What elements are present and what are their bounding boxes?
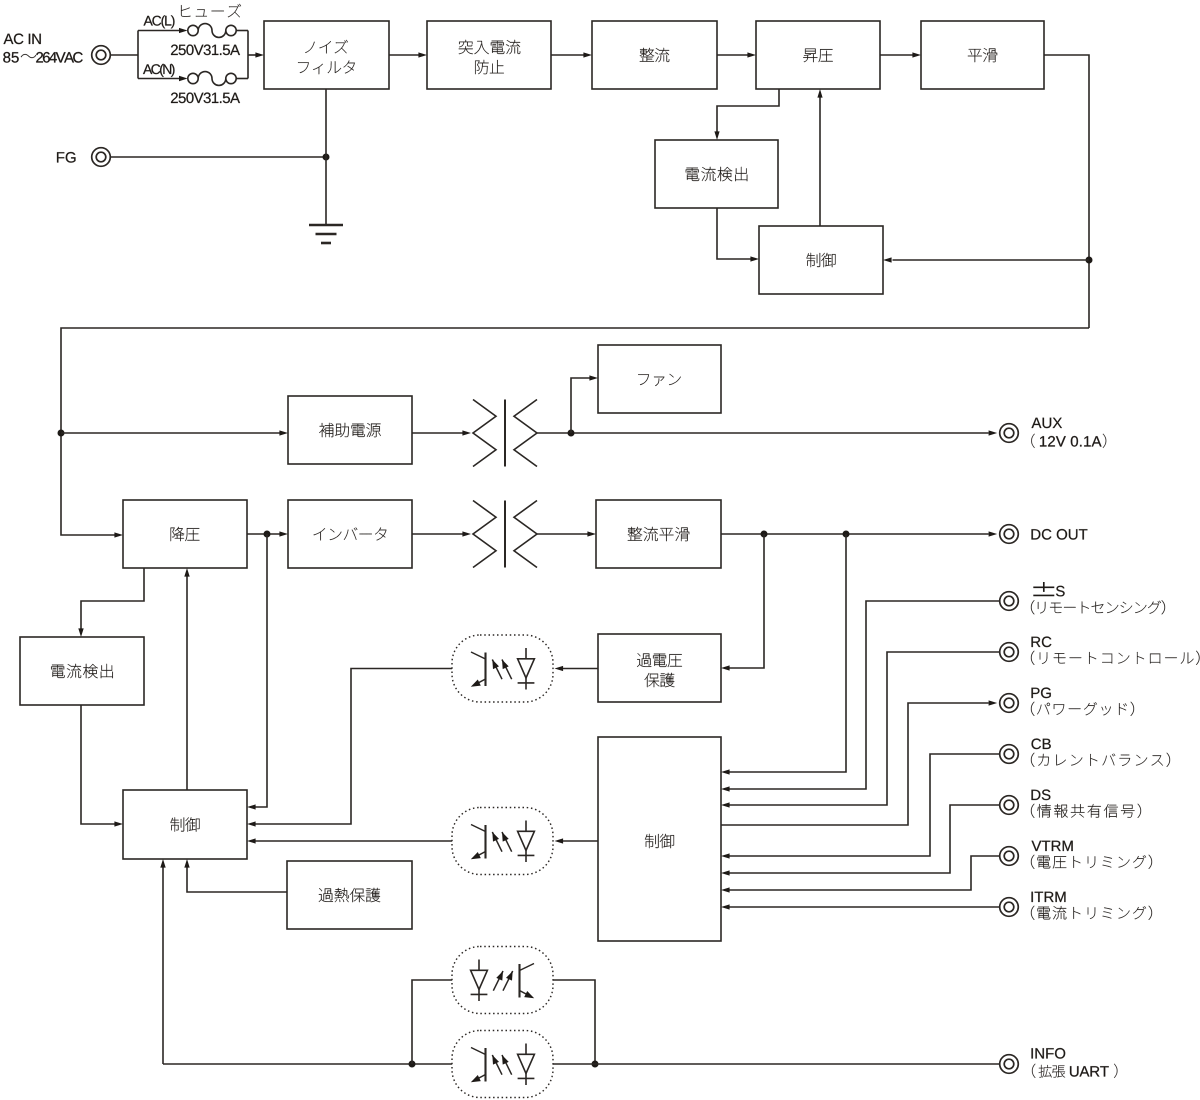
block control 制御 U3	[598, 737, 721, 941]
connector VTRM voltage trim	[1000, 847, 1019, 866]
block control 制御 U2	[123, 790, 247, 859]
wire INFO net to INFO connector	[553, 1063, 1000, 1065]
label 電流検出 A	[686, 167, 748, 181]
wire photocoupler PC3 right branch	[553, 980, 595, 1064]
junction DC OUT voltage sense	[843, 531, 850, 538]
wire noise filter to inrush prevention	[389, 52, 427, 57]
wire AC(N) branch into fuse F2	[138, 76, 188, 81]
label DS 情報共有信号	[1031, 790, 1141, 818]
wire RC into control U3	[721, 652, 1000, 808]
label F2 rating 250V31.5A	[171, 93, 240, 104]
label 制御 U3	[645, 834, 674, 848]
wire INFO net to control U2	[160, 859, 165, 1064]
wire step-down to inverter	[247, 531, 288, 536]
block overvoltage protection 過電圧保護	[598, 634, 721, 702]
wire fuse branch left vertical	[137, 31, 139, 79]
wire control U1 to boost gate	[817, 89, 822, 226]
photocoupler PC2 enclosure	[452, 808, 553, 875]
wire overheat protection to control U2	[184, 859, 287, 892]
wire FG to noise filter ground	[110, 156, 326, 158]
block smoothing 平滑	[921, 21, 1044, 89]
wire CB into control U3	[721, 754, 1000, 859]
wire smoothing output down right side	[1044, 55, 1089, 328]
wire auxiliary supply into transformer T1	[412, 430, 471, 435]
wire fuse F2 to right branch	[236, 78, 248, 80]
transformer T1	[473, 400, 537, 467]
connector INFO	[1000, 1055, 1019, 1074]
label ITRM 電流トリミング	[1031, 892, 1152, 920]
label 平滑	[968, 48, 997, 62]
junction step-down output sense	[264, 531, 271, 538]
label 整流	[640, 48, 670, 62]
block rectifier 整流	[592, 21, 717, 89]
wire control U3 to PG output	[721, 700, 997, 825]
label 補助電源	[319, 423, 381, 437]
junction DC OUT to overvoltage protection	[761, 531, 768, 538]
transformer T2	[473, 501, 537, 568]
connector AUX	[1000, 424, 1019, 443]
label +/-S リモートセンシング	[1031, 582, 1165, 614]
wire photocoupler PC2 to control U2	[247, 838, 452, 843]
wire photocoupler PC1 to control U2	[247, 669, 452, 827]
fuse F2	[188, 72, 236, 86]
block inrush current prevention 突入電流防止	[427, 21, 551, 89]
label ヒューズ	[181, 4, 241, 17]
wire step-down bottom to current detect B	[78, 568, 144, 637]
wire DC OUT sense into control U3	[721, 534, 846, 775]
block overheat protection 過熱保護	[287, 861, 412, 929]
junction INFO right branch	[592, 1061, 599, 1068]
block current detection 電流検出 B	[20, 637, 144, 705]
junction main bus to auxiliary supply	[58, 430, 65, 437]
label 降圧	[171, 527, 200, 541]
junction FG ground	[323, 154, 330, 161]
wire noise filter to ground	[325, 89, 327, 225]
block current detection 電流検出 A	[655, 140, 778, 208]
wire fuse branch into noise filter	[248, 52, 264, 57]
wire feedback into control U1	[883, 257, 1089, 262]
connector DC OUT	[1000, 525, 1019, 544]
label ノイズ フィルタ	[298, 40, 355, 74]
wire transformer T2 into rectifier-smoothing	[537, 531, 596, 536]
connector DS data share	[1000, 796, 1019, 815]
wire control U3 into photocoupler PC2	[555, 838, 599, 843]
wire boost bottom to current detect A	[714, 89, 779, 140]
wire overvoltage protection into photocoupler PC1	[555, 666, 599, 671]
wire main DC bus from smoothing to step-down	[61, 328, 1089, 538]
connector RC remote control	[1000, 643, 1019, 662]
wire fuse F1 to right branch	[236, 30, 248, 32]
wire current detect A to control U1	[717, 208, 759, 262]
photocoupler PC1 enclosure	[452, 635, 553, 702]
wire inverter into transformer T2	[412, 531, 471, 536]
label 制御 U1	[807, 253, 836, 267]
photocoupler PC3 enclosure	[452, 947, 553, 1014]
block control 制御 U1	[759, 226, 883, 294]
junction INFO left branch	[409, 1061, 416, 1068]
label 過熱保護	[319, 888, 380, 902]
wire DS into control U3	[721, 805, 1000, 876]
ground	[309, 225, 343, 243]
wire rectifier to boost	[717, 52, 756, 57]
wire current detect B to control U2	[81, 705, 123, 827]
wire +/-S into control U3	[721, 601, 1000, 792]
label 電流検出 B	[51, 664, 113, 678]
block rectify and smooth 整流平滑	[596, 500, 721, 568]
wire boost to smoothing	[880, 52, 921, 57]
block fan ファン	[598, 345, 721, 413]
wire control U2 to step-down gate	[184, 568, 189, 790]
photocoupler PC3	[471, 960, 535, 1002]
junction fan branch	[568, 430, 575, 437]
wire fuse branch right vertical	[247, 31, 249, 79]
connector +/-S remote sensing	[1000, 592, 1019, 611]
connector ITRM current trim	[1000, 898, 1019, 917]
wire step-down output down to control U2	[247, 534, 267, 810]
block boost converter 昇圧	[756, 21, 880, 89]
photocoupler PC4 enclosure	[452, 1031, 553, 1098]
block noise filter ノイズフィルタ	[264, 21, 389, 89]
label F1 rating 250V31.5A	[171, 45, 240, 56]
label 制御 U2	[171, 817, 200, 831]
wire main bus into auxiliary supply	[61, 430, 288, 435]
label ファン	[638, 374, 680, 386]
label INFO 拡張UART	[1032, 1048, 1118, 1078]
label FG	[57, 152, 76, 163]
photocoupler PC4	[471, 1044, 535, 1086]
connector PG power good	[1000, 694, 1019, 713]
wire transformer T1 to AUX output	[537, 430, 997, 435]
block inverter インバータ	[288, 500, 412, 568]
wire branch up to photocoupler PC3	[412, 980, 452, 1064]
junction smoothing feedback	[1086, 257, 1093, 264]
connector AC IN	[92, 46, 111, 65]
wire VTRM into control U3	[721, 856, 1000, 893]
wire rectifier-smoothing to DC OUT	[721, 531, 997, 536]
wire DC OUT into overvoltage protection	[721, 534, 764, 671]
label VTRM 電圧トリミング	[1031, 841, 1152, 869]
wire ITRM into control U3	[721, 904, 1000, 909]
label RC リモートコントロール	[1031, 637, 1200, 665]
label インバータ	[314, 528, 387, 541]
label DC OUT	[1032, 529, 1088, 540]
wire inrush prevention to rectifier	[551, 52, 592, 57]
label 昇圧	[803, 49, 832, 63]
label PG パワーグッド	[1031, 688, 1134, 716]
block step-down converter 降圧	[123, 500, 247, 568]
wire AC(L) branch into fuse F1	[138, 28, 188, 33]
label CB カレントバランス	[1031, 739, 1170, 767]
connector CB current balance	[1000, 745, 1019, 764]
label AC IN 85-264VAC	[3, 34, 82, 63]
wire branch into fan	[571, 375, 598, 433]
block auxiliary power supply 補助電源	[288, 396, 412, 464]
label 整流平滑	[628, 527, 689, 541]
photocoupler PC2	[471, 821, 535, 863]
connector FG	[92, 148, 111, 167]
label AC(L)	[144, 15, 175, 28]
label 突入電流 防止	[459, 40, 520, 74]
label 過電圧 保護	[637, 653, 682, 687]
wire INFO net bottom left segment	[163, 1063, 452, 1065]
wire AC IN connector to fuse branch	[110, 54, 138, 56]
photocoupler PC1	[471, 648, 535, 690]
label AC(N)	[143, 64, 175, 77]
label AUX 12V 0.1A	[1031, 418, 1106, 448]
fuse F1	[188, 24, 236, 38]
